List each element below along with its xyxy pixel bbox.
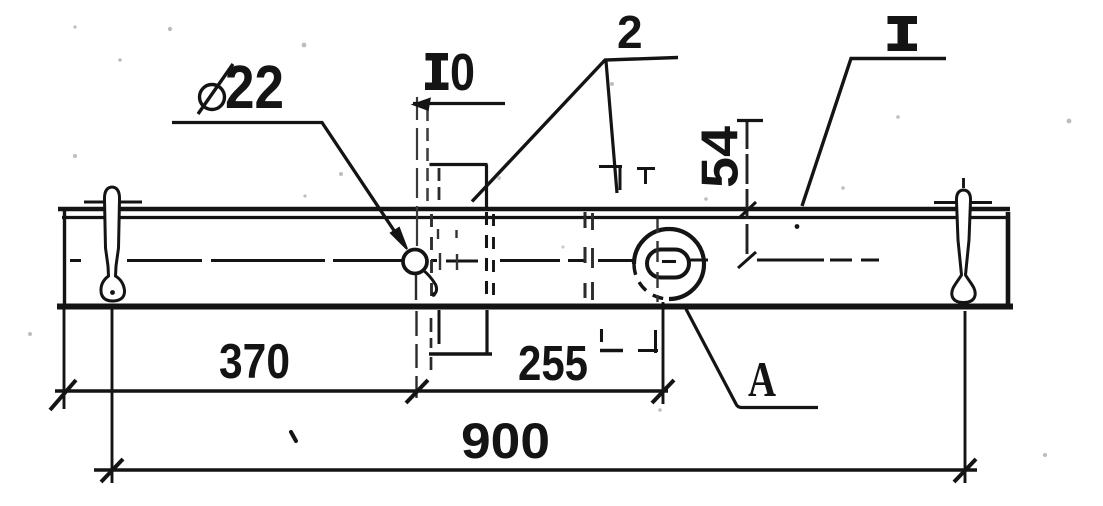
svg-text:0: 0 — [450, 44, 475, 102]
svg-text:54: 54 — [692, 126, 750, 188]
svg-text:370: 370 — [219, 335, 290, 389]
svg-text:900: 900 — [461, 413, 550, 469]
svg-text:22: 22 — [225, 53, 284, 121]
svg-text:2: 2 — [617, 6, 643, 58]
svg-text:255: 255 — [518, 337, 588, 391]
svg-text:A: A — [748, 351, 776, 407]
